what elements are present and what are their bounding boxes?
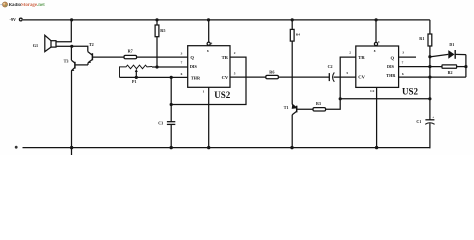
wire: speaker top terminal to rail — [56, 20, 71, 42]
wire: right vertical D1 cathode to THR — [465, 55, 467, 78]
svg-text:7: 7 — [402, 61, 404, 65]
wire: bottom ground rail — [23, 147, 431, 149]
svg-text:G1: G1 — [33, 43, 38, 48]
svg-text:DIS: DIS — [190, 64, 198, 69]
wire: THR node down to C3 — [170, 77, 172, 121]
wire: right bus R1 to C1 — [429, 46, 431, 120]
svg-text:THR: THR — [386, 73, 396, 78]
node: THR / C3 junction — [170, 76, 173, 79]
svg-text:4: 4 — [211, 41, 213, 45]
wire: IC2 TR pin 2 down — [340, 57, 356, 99]
svg-text:D1: D1 — [449, 42, 454, 47]
node: rail junction above speaker — [70, 18, 73, 21]
svg-text:3: 3 — [402, 51, 404, 55]
node: R2 right junction — [464, 65, 467, 68]
svg-text:DIS: DIS — [387, 64, 395, 69]
watermark logo icon — [0, 2, 7, 7]
svg-text:C2: C2 — [328, 64, 333, 69]
svg-text:R7: R7 — [128, 48, 133, 53]
-9V supply terminal — [10, 17, 23, 22]
wire: R5 down to DIS line — [156, 37, 158, 67]
svg-text:+: + — [432, 116, 434, 120]
capacitor C1 — [416, 116, 434, 125]
svg-text:CV: CV — [222, 75, 229, 80]
node: C1 top junction — [428, 97, 431, 100]
svg-text:R6: R6 — [269, 70, 274, 75]
wire: speaker bottom terminal — [56, 45, 72, 47]
node: D1 anode junction on bus — [428, 55, 431, 58]
svg-text:US2: US2 — [402, 87, 419, 97]
svg-text:US2: US2 — [214, 90, 231, 100]
resistor R4 — [290, 20, 300, 41]
capacitor C2 — [328, 64, 335, 82]
wire: C2 to IC2 CV pin 5 — [334, 76, 356, 78]
wire: IC2 THR pin 6 line — [399, 76, 466, 78]
svg-text:2: 2 — [349, 51, 351, 55]
wire: junction to T2 collector — [72, 46, 88, 51]
transistor T2 — [88, 42, 94, 65]
node: speaker/T2/T3 collector junction — [70, 45, 73, 48]
wire: IC2 pin 1 to ground rail — [376, 87, 378, 147]
resistor R3 — [313, 101, 326, 111]
svg-text:8: 8 — [207, 49, 209, 53]
potentiometer P1 — [120, 65, 153, 84]
wire: TR/THR net to C1 bus — [340, 98, 430, 100]
wire: DIS line from pot to IC1 pin 7 — [152, 66, 188, 68]
node: TR/THR net junction — [339, 97, 342, 100]
watermark text RadioStorage.net — [9, 3, 46, 8]
diode D1 — [430, 42, 466, 59]
svg-text:RadioStorage.net: RadioStorage.net — [9, 3, 46, 8]
wire: T3 emitter down to ground rail and below — [71, 71, 73, 155]
wire: C3 to ground rail — [170, 124, 172, 147]
wire: IC1 CV pin 5 to R6 — [230, 76, 266, 78]
svg-text:6: 6 — [181, 72, 183, 76]
wire: R3 right end up to TR/THR net — [326, 99, 341, 110]
svg-text:T1: T1 — [284, 105, 289, 110]
wire: top power rail — [23, 19, 430, 21]
node: rail junction above R5 — [155, 18, 158, 21]
svg-text:C3: C3 — [158, 121, 163, 126]
svg-text:T3: T3 — [64, 58, 69, 63]
bottom-left terminal — [15, 146, 18, 149]
wire: IC2 pin 4/8 to rail — [375, 20, 377, 43]
wire: T1 collector to ground rail — [291, 115, 293, 148]
svg-text:R1: R1 — [419, 36, 424, 41]
wire: IC1 pin 1 to ground rail — [208, 87, 210, 147]
svg-text:Q: Q — [391, 55, 395, 60]
wire: R4 down to T1 emitter — [291, 41, 293, 104]
resistor R2 — [442, 65, 457, 75]
svg-text:4: 4 — [378, 40, 380, 44]
svg-text:5: 5 — [234, 71, 236, 75]
transistor T1 — [284, 104, 297, 115]
node: ground rail junction at T3 — [70, 146, 73, 149]
wire: T2 base to R7 — [92, 56, 124, 58]
wire: T2 emitter to T3 base — [75, 64, 88, 66]
svg-text:R2: R2 — [448, 70, 453, 75]
resistor R5 — [155, 20, 165, 37]
node: ground rail junction at T1 — [290, 146, 293, 149]
wire: IC1 pin 4/8 to rail — [208, 20, 210, 42]
node: rail junction above IC2 — [375, 18, 378, 21]
wire: R7 to IC1 pin 3 — [137, 56, 188, 58]
wire: THR line from pot to IC1 pin 6 — [120, 76, 188, 78]
capacitor C3 — [158, 121, 175, 126]
svg-text:R4: R4 — [296, 32, 300, 36]
node: THR junction on bus — [428, 76, 431, 79]
wire: IC2 Q pin 3 stub — [399, 56, 416, 58]
wire: C1 to bottom rail corner — [429, 123, 432, 147]
wire: IC2 DIS pin 7 line — [399, 66, 443, 68]
svg-text:TR: TR — [222, 55, 229, 60]
svg-text:3: 3 — [181, 51, 183, 55]
wire: R2 to right vertical — [456, 66, 466, 68]
node: C3/TR junction — [170, 103, 173, 106]
node: DIS junction on bus — [428, 65, 431, 68]
svg-text:6: 6 — [402, 72, 404, 76]
wire: T1 base to R3 — [297, 108, 313, 110]
svg-text:R5: R5 — [160, 28, 165, 33]
svg-text:2: 2 — [234, 51, 236, 55]
node: ground rail junction at IC1 pin1 — [207, 146, 210, 149]
node: pot wiper / THR junction — [135, 76, 138, 79]
svg-text:THR: THR — [191, 75, 201, 80]
op IC1 timer US2 box — [188, 46, 230, 88]
node: ground rail junction at C3 — [170, 146, 173, 149]
wire: T3 collector up to junction — [70, 46, 72, 60]
svg-text:T2: T2 — [89, 42, 94, 47]
svg-text:7: 7 — [181, 61, 183, 65]
svg-text:-9V: -9V — [10, 17, 17, 22]
svg-text:TR: TR — [358, 55, 365, 60]
svg-text:P1: P1 — [132, 79, 136, 84]
node: rail junction above R4 — [291, 18, 294, 21]
wire: IC1 TR pin 2 loop to THR node — [171, 57, 246, 104]
node: R5/DIS junction — [155, 65, 158, 68]
svg-text:C1: C1 — [416, 119, 421, 124]
resistor R1 — [419, 20, 432, 46]
svg-text:R3: R3 — [316, 101, 321, 106]
speaker G1 — [33, 35, 56, 51]
wire: R6 to C2 — [278, 76, 329, 78]
node: rail junction above IC1 — [207, 18, 210, 21]
svg-text:CV: CV — [358, 75, 365, 80]
resistor R6 — [266, 70, 279, 79]
svg-text:1: 1 — [203, 90, 205, 94]
transistor T3 — [64, 58, 75, 71]
svg-text:8: 8 — [374, 49, 376, 53]
svg-text:C2: C2 — [370, 89, 374, 93]
svg-text:Q: Q — [190, 55, 194, 60]
reset bubble IC2 — [374, 42, 377, 45]
reset bubble IC1 — [207, 42, 210, 45]
svg-text:5: 5 — [346, 71, 348, 75]
resistor R7 — [124, 48, 137, 59]
op IC2 timer US2 box — [356, 46, 399, 87]
node: ground rail junction at IC2 pin1 — [375, 146, 378, 149]
